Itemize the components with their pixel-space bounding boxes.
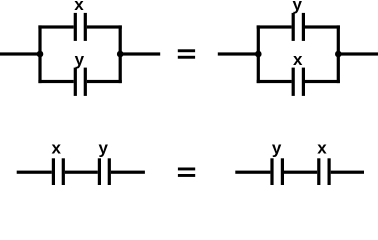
svg-text:x: x <box>317 139 327 158</box>
equals sign (bottom row) <box>178 168 195 177</box>
node D: right junction dot of parallel network 2 <box>335 51 342 58</box>
wire: right output lead of parallel network 1 <box>119 52 161 55</box>
capacitor y (first in series chain 2) <box>270 158 284 185</box>
capacitor x (second in series chain 2) <box>317 158 331 185</box>
capacitor x (first in series chain 1) <box>52 158 65 185</box>
wire: left lead of series chain 2 <box>235 171 270 174</box>
wire: middle lead of series chain 1 <box>65 171 98 174</box>
capacitor y (bottom branch of network 1) <box>74 68 87 96</box>
svg-text:y: y <box>292 0 302 14</box>
wire: right lead of series chain 2 <box>331 171 364 174</box>
svg-text:y: y <box>98 139 108 158</box>
wire: right output lead of parallel network 2 <box>337 52 378 55</box>
wire: bottom branch right lead (from capacitor x) <box>305 80 340 83</box>
node A: left junction dot of parallel network 1 <box>37 51 44 58</box>
capacitor x (bottom branch of network 2) <box>292 68 305 96</box>
wire: bottom branch left lead (to capacitor x) <box>257 80 292 83</box>
svg-text:x: x <box>51 139 61 158</box>
wire: top branch left lead (to capacitor x) <box>38 25 73 28</box>
capacitor x (top branch of network 1) <box>74 13 87 41</box>
wire: bottom branch right lead (from capacitor y) <box>87 80 122 83</box>
wire: right lead of series chain 1 <box>111 171 145 174</box>
node C: left junction dot of parallel network 2 <box>255 51 262 58</box>
wire: bottom branch left lead (to capacitor y) <box>38 80 73 83</box>
equals sign (top row) <box>178 49 195 58</box>
wire: top branch left lead (to capacitor y) <box>257 25 292 28</box>
svg-text:y: y <box>75 50 85 69</box>
svg-text:x: x <box>293 50 303 69</box>
svg-text:y: y <box>272 139 282 158</box>
wire: middle lead of series chain 2 <box>284 171 317 174</box>
wire: left input lead of parallel network 1 <box>0 52 42 55</box>
wire: left vertical edge of parallel network 1 <box>38 25 41 83</box>
wire: left input lead of parallel network 2 <box>218 52 260 55</box>
wire: top branch right lead (from capacitor x) <box>87 25 122 28</box>
wire: top branch right lead (from capacitor y) <box>305 25 340 28</box>
wire: left vertical edge of parallel network 2 <box>257 25 260 83</box>
wire: left lead of series chain 1 <box>17 171 52 174</box>
wire: right vertical edge of parallel network 1 <box>119 25 122 83</box>
capacitor y (top branch of network 2) <box>292 13 305 41</box>
wire: right vertical edge of parallel network 2 <box>337 25 340 83</box>
capacitor y (second in series chain 1) <box>98 158 111 185</box>
svg-text:x: x <box>74 0 84 14</box>
node B: right junction dot of parallel network 1 <box>117 51 124 58</box>
